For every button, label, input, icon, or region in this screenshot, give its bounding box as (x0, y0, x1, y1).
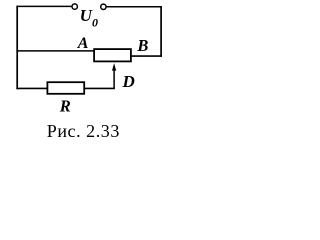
resistor R body (47, 82, 84, 94)
svg-text:Рис. 2.33: Рис. 2.33 (47, 121, 120, 141)
svg-text:R: R (59, 96, 71, 115)
terminal circle right of U0 (101, 4, 106, 9)
svg-text:B: B (136, 36, 148, 55)
wire: left rail vertical (16, 6, 18, 90)
wire: node A line from left rail to potentiometer left end (16, 50, 94, 52)
wiper arrow to node D (112, 63, 116, 88)
potentiometer body A-B (94, 49, 131, 61)
wire: top right segment from terminal to corner (106, 6, 161, 8)
wire: right rail vertical down to node B (160, 6, 162, 57)
svg-text:0: 0 (92, 16, 98, 30)
svg-text:A: A (77, 35, 89, 52)
terminal circle left of U0 (72, 4, 77, 9)
wire: node B to potentiometer right end (131, 55, 162, 57)
svg-text:U: U (80, 6, 93, 25)
wire: top left segment to U0 terminal (16, 5, 71, 7)
wire: bottom rail from left to resistor R (16, 87, 47, 89)
wire: resistor R to wiper junction D (84, 87, 115, 89)
svg-text:D: D (122, 72, 135, 91)
